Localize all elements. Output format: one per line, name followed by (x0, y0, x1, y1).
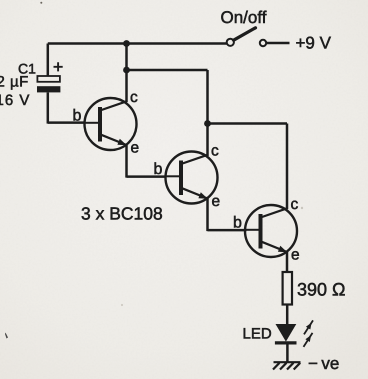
svg-text:On/off: On/off (221, 8, 267, 27)
svg-text:− ve: − ve (308, 354, 339, 373)
svg-text:390 Ω: 390 Ω (297, 280, 346, 300)
svg-text:2 µF: 2 µF (0, 74, 29, 91)
svg-text:+9 V: +9 V (296, 34, 332, 53)
svg-text:3 x BC108: 3 x BC108 (81, 204, 163, 224)
svg-text:LED: LED (243, 326, 272, 343)
svg-text:16 V: 16 V (0, 92, 30, 109)
